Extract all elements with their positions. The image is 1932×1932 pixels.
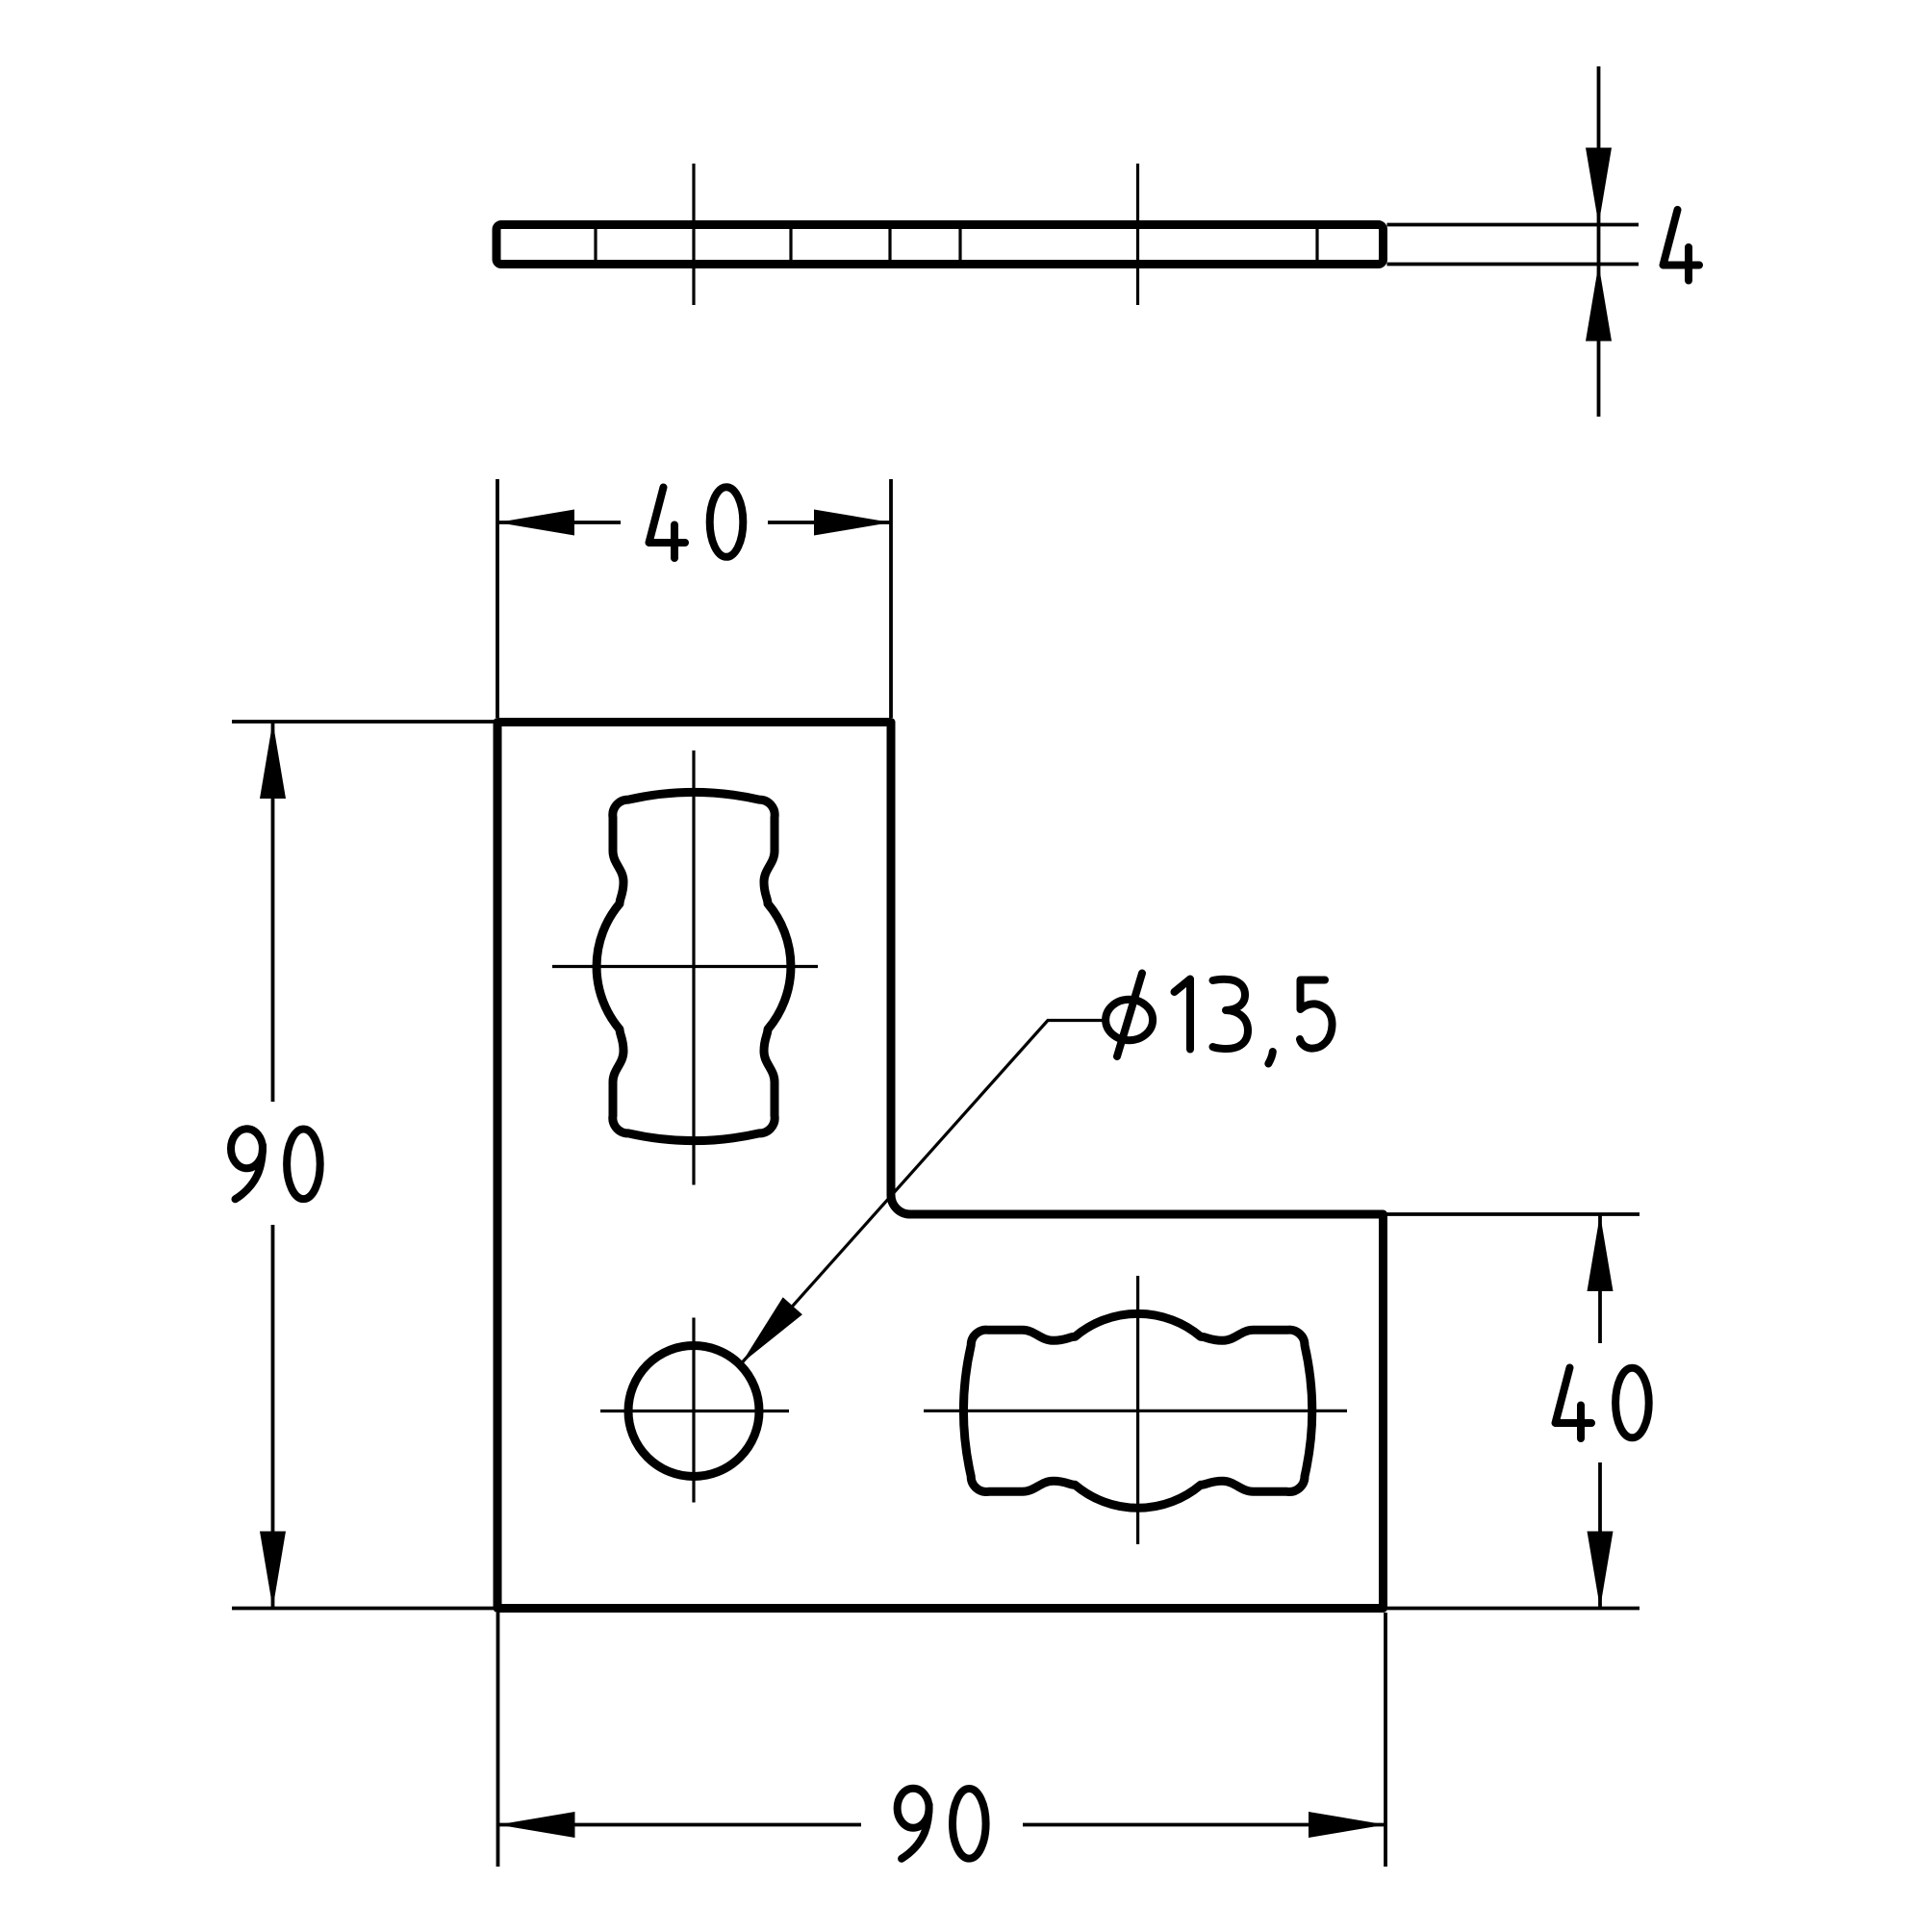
side view bottom slot end projection line x1369 — [1315, 228, 1318, 261]
side view slot/corner projection line x619 — [594, 228, 597, 261]
dim40top extension line left — [496, 479, 499, 718]
top slot horizontal centerline — [552, 965, 818, 968]
dim90left arrow up — [260, 722, 286, 799]
dim40top text 40 — [649, 488, 686, 544]
thickness extension line bottom — [1387, 263, 1640, 267]
bottom slot horizontal centerline — [924, 1410, 1347, 1412]
hole vertical centerline — [692, 1318, 695, 1503]
dim90bottom extension line right — [1384, 1613, 1387, 1867]
dim90left extension line bottom — [232, 1607, 496, 1611]
dim40top arrow right — [814, 510, 891, 536]
dim90left dimension line bottom segment — [271, 1225, 275, 1609]
bottom slot (horizontal elongated hole) — [964, 1313, 1312, 1508]
leader line to hole — [742, 1021, 1104, 1364]
dim90bottom arrow left — [498, 1812, 575, 1838]
dim90left arrow down — [260, 1532, 286, 1609]
side view centerline of top slot — [692, 164, 695, 305]
side view bottom slot end projection line x998 — [958, 228, 961, 261]
dim40top extension line right — [889, 479, 893, 718]
L-plate outline — [497, 723, 1384, 1609]
dim40right extension line bottom — [1387, 1607, 1640, 1611]
dim40right dimension line bottom segment — [1598, 1462, 1602, 1609]
hole 13.5 — [628, 1346, 759, 1477]
top slot vertical centerline — [692, 750, 695, 1185]
text 13,5 — [1175, 979, 1191, 1050]
dim90left extension line top — [232, 720, 496, 724]
bottom slot vertical centerline — [1136, 1276, 1139, 1544]
side view slot projection line x822 — [789, 228, 792, 261]
dim40right extension line top — [1387, 1212, 1640, 1216]
top slot (vertical elongated hole) — [597, 792, 791, 1140]
dim90bottom dimension line left segment — [498, 1823, 862, 1827]
thickness extension line top — [1387, 223, 1640, 227]
thickness arrow up — [1586, 265, 1612, 342]
dim90bottom extension line left — [496, 1613, 500, 1867]
dimension text 4 — [1664, 210, 1700, 266]
side view centerline of bottom slot — [1136, 164, 1139, 305]
dim40right text 40 — [1556, 1368, 1592, 1424]
hole horizontal centerline — [600, 1410, 789, 1412]
dim90bottom arrow right — [1309, 1812, 1385, 1838]
dim40right dimension line top segment — [1598, 1214, 1602, 1343]
diameter symbol — [1106, 1000, 1153, 1040]
dim90left text 90 — [231, 1129, 263, 1168]
side view inner corner projection line x925 — [888, 228, 891, 261]
dim40top arrow left — [497, 510, 574, 536]
dim40top dimension line left segment — [497, 521, 621, 524]
dim90bottom dimension line right segment — [1023, 1823, 1385, 1827]
side view plate outline — [496, 225, 1384, 265]
dim40right arrow up — [1588, 1214, 1614, 1291]
dim90bottom text 90 — [898, 1789, 929, 1828]
dim40right arrow down — [1588, 1532, 1614, 1609]
thickness arrow down — [1586, 148, 1612, 225]
thickness dimension line — [1597, 66, 1601, 417]
leader arrowhead — [742, 1297, 802, 1363]
dim40top dimension line right segment — [768, 521, 891, 524]
dim90left dimension line top segment — [271, 722, 275, 1102]
